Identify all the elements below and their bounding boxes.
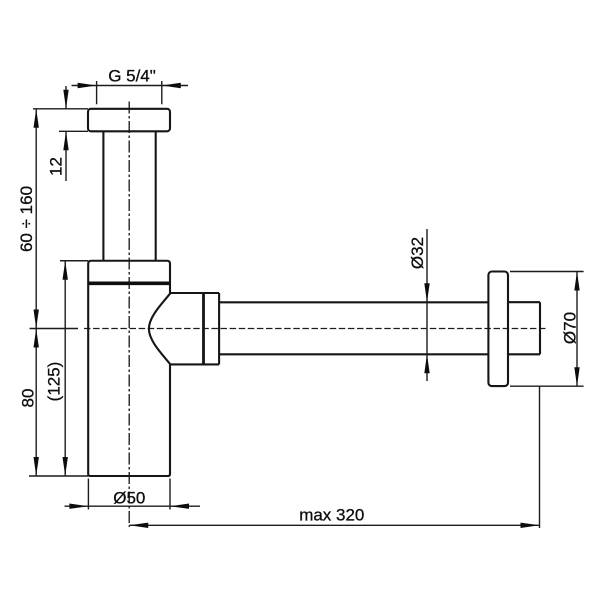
union nut xyxy=(218,293,220,364)
svg-text:G 5/4": G 5/4" xyxy=(108,67,156,86)
wall pipe stub xyxy=(508,302,540,354)
svg-text:Ø50: Ø50 xyxy=(113,489,145,508)
flange bottom extension line xyxy=(59,130,88,132)
seal band xyxy=(88,281,170,285)
dimension max320 arrows xyxy=(129,523,539,528)
body nut xyxy=(88,261,170,286)
dimension D70 arrows xyxy=(574,272,579,387)
cup bottom extension line xyxy=(29,475,88,477)
svg-text:12: 12 xyxy=(47,157,66,176)
dimension 125 line xyxy=(64,261,66,476)
elbow xyxy=(149,293,219,364)
axis left extension line xyxy=(30,328,79,330)
dimension 60-160 arrows xyxy=(34,109,39,329)
dimension G 5/4 arrows xyxy=(78,83,181,88)
dimension D50 arrows xyxy=(69,504,189,509)
dimension 60-160 line xyxy=(35,109,37,329)
flange top extension line xyxy=(33,108,88,110)
inlet pipe xyxy=(103,131,155,260)
dimension D32 line xyxy=(426,229,428,381)
svg-text:60 ÷ 160: 60 ÷ 160 xyxy=(17,186,36,252)
dimension D70 line xyxy=(576,272,578,387)
horizontal centerline xyxy=(84,328,546,330)
svg-text:max 320: max 320 xyxy=(299,505,364,524)
svg-text:Ø32: Ø32 xyxy=(408,237,427,269)
inlet flange xyxy=(88,109,170,132)
dimension 12 lines xyxy=(65,86,67,181)
vertical centerline xyxy=(128,102,130,528)
dimension G 5/4 line xyxy=(72,85,189,87)
dimension 125 arrows xyxy=(63,261,68,476)
dimension G 5/4 extension lines xyxy=(97,81,162,104)
union nut thick edge xyxy=(202,293,205,364)
dimension 80 line xyxy=(35,329,37,477)
dimension D50 extension lines xyxy=(88,479,170,510)
dimension max320 right extension line xyxy=(539,386,541,528)
dimension max320 line xyxy=(129,524,539,526)
dimension D32 arrows xyxy=(424,283,429,373)
outlet pipe xyxy=(219,302,488,354)
dimension 80 arrows xyxy=(34,329,39,477)
svg-text:80: 80 xyxy=(19,389,38,408)
wall flange xyxy=(488,272,508,387)
dimension D50 line xyxy=(65,505,201,507)
dimension 12 arrows xyxy=(63,90,68,151)
body cup xyxy=(88,285,170,476)
dimension D70 extension lines xyxy=(510,272,584,387)
svg-text:Ø70: Ø70 xyxy=(561,312,580,344)
body nut top extension line xyxy=(60,260,88,262)
svg-text:(125): (125) xyxy=(45,362,64,402)
